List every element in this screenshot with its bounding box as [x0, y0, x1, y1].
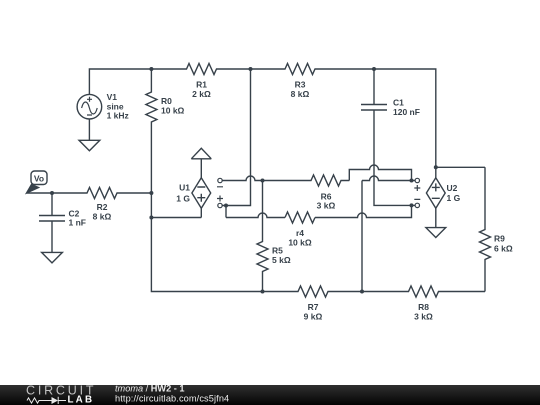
junction: top rail / R0 — [149, 67, 153, 71]
resistor R9 — [480, 167, 491, 291]
wire: Vo flag to C2 node — [27, 192, 52, 194]
svg-text:http://circuitlab.com/cs5jfn4: http://circuitlab.com/cs5jfn4 — [115, 393, 229, 403]
wire: U1 - input to R5 top junction (hop over vertical) — [222, 176, 262, 181]
junction: R5 bottom / bottom rail — [261, 290, 265, 294]
junction: R5 top / U1 - row — [261, 179, 265, 183]
wire: x362 vertical down to bottom rail — [361, 181, 363, 292]
svg-text:U2: U2 — [447, 183, 458, 193]
svg-text:5 kΩ: 5 kΩ — [272, 255, 291, 265]
junction: top rail / C1 — [372, 67, 376, 71]
svg-text:R8: R8 — [418, 302, 429, 312]
dependent source U2 — [426, 167, 445, 227]
junction: U2 + input — [410, 179, 414, 183]
svg-text:C1: C1 — [393, 98, 404, 108]
svg-text:R7: R7 — [308, 302, 319, 312]
capacitor C1 — [361, 69, 387, 110]
svg-text:R3: R3 — [295, 80, 306, 90]
resistor R8 — [362, 286, 485, 297]
svg-text:1 G: 1 G — [176, 193, 190, 203]
ground (below U2) — [426, 228, 446, 238]
svg-text:R0: R0 — [161, 96, 172, 106]
svg-text:1 nF: 1 nF — [69, 218, 86, 228]
svg-text:2 kΩ: 2 kΩ — [192, 89, 211, 99]
svg-text:R9: R9 — [494, 234, 505, 244]
svg-text:r4: r4 — [296, 228, 304, 238]
svg-text:V1: V1 — [107, 92, 118, 102]
resistor r4 — [285, 212, 315, 223]
ground (below V1) — [79, 140, 100, 151]
svg-text:6 kΩ: 6 kΩ — [494, 244, 513, 254]
wire: top rail junction down to U1 + input — [226, 69, 251, 206]
svg-text:10 kΩ: 10 kΩ — [288, 238, 312, 248]
junction: top rail / x250 vertical — [249, 67, 253, 71]
junction: R2 / left rail — [149, 191, 153, 195]
wire: U2 top junction to R9 top — [436, 166, 485, 168]
wire: top rail right to U2 top — [374, 69, 436, 167]
wire: U1 bottom to left rail — [151, 217, 201, 219]
svg-text:8 kΩ: 8 kΩ — [291, 89, 310, 99]
svg-text:3 kΩ: 3 kΩ — [414, 312, 433, 322]
svg-text:tmoma / HW2 - 1: tmoma / HW2 - 1 — [115, 383, 184, 393]
resistor R3 — [251, 64, 375, 75]
wire: R6 to U2 + input (segment A, hop over C1 column) — [349, 165, 411, 181]
ground (above U1, flipped) — [191, 148, 211, 177]
svg-text:1 G: 1 G — [447, 193, 461, 203]
wire: U1 + input junction down to r4 row — [222, 206, 226, 218]
U2 input terminals — [412, 178, 421, 207]
resistor R0 — [146, 69, 157, 193]
svg-text:9 kΩ: 9 kΩ — [304, 312, 323, 322]
junction: Vo wire / C2 — [50, 191, 54, 195]
svg-text:10 kΩ: 10 kΩ — [161, 106, 185, 116]
svg-text:1 kHz: 1 kHz — [107, 111, 129, 121]
dependent source U1 — [192, 178, 211, 218]
wire: r4 row left part (hop over R5 column) — [226, 213, 285, 218]
footer logo resistor-diode symbol — [27, 397, 66, 404]
wire: C1 bottom to U2 - input — [374, 110, 412, 205]
svg-text:8 kΩ: 8 kΩ — [93, 212, 112, 222]
node Vo flag — [27, 171, 47, 193]
wire: r4 row right part to U2 - input (hop over x362) — [315, 205, 412, 217]
resistor R1 — [151, 64, 250, 75]
svg-text:R5: R5 — [272, 246, 283, 256]
svg-text:LAB: LAB — [68, 395, 95, 405]
wire: segment B, U2 + input to x362 branch (hop over C1 column) — [362, 176, 412, 181]
resistor R5 — [257, 181, 268, 292]
capacitor C2 — [39, 193, 65, 252]
svg-text:Vo: Vo — [34, 174, 44, 184]
svg-text:120 nF: 120 nF — [393, 107, 420, 117]
junction: U1 + input — [224, 204, 228, 208]
svg-text:R1: R1 — [196, 80, 207, 90]
wire: V1 top to top rail — [89, 69, 151, 94]
junction: x362 / bottom rail — [360, 290, 364, 294]
junction: U1 bottom wire / left rail — [149, 216, 153, 220]
svg-text:R2: R2 — [97, 202, 108, 212]
wire: left rail R2 node to U1 bottom node — [150, 193, 152, 218]
resistor R7 — [263, 286, 363, 297]
junction: U2 top — [434, 165, 438, 169]
svg-text:U1: U1 — [179, 183, 190, 193]
resistor R6 — [263, 175, 350, 186]
voltage source V1 — [77, 94, 102, 140]
wire: left rail down and bottom rail to R5 bottom — [151, 218, 262, 292]
U1 input terminals — [217, 178, 223, 207]
ground (below C2) — [42, 252, 63, 263]
resistor R2 — [52, 188, 151, 199]
svg-text:3 kΩ: 3 kΩ — [317, 201, 336, 211]
junction: U2 - input — [410, 203, 414, 207]
footer bar — [0, 385, 540, 405]
